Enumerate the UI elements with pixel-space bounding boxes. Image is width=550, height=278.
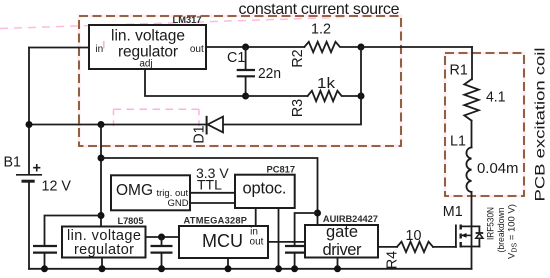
- node: out/C1 junction: [242, 44, 249, 51]
- svg-text:L1: L1: [450, 134, 466, 150]
- wire: LM317 in: [29, 47, 89, 49]
- annotation: magenta dash fragment: [103, 41, 105, 49]
- regulator U2 L7805 box: [62, 216, 146, 258]
- dashed box: constant current source: [79, 16, 401, 146]
- svg-text:optoc.: optoc.: [243, 180, 287, 198]
- svg-text:4.1: 4.1: [486, 90, 506, 106]
- wire: B1 - rail (left vertical, bottom): [28, 182, 30, 269]
- wire: ground bus: [29, 268, 472, 270]
- optocoupler U3 PC817 box: [235, 165, 295, 209]
- wire: L7805 gnd: [101, 258, 103, 269]
- wire: adj line to R3: [246, 95, 308, 97]
- resistor R2: [290, 22, 361, 68]
- OMG signal source box: [111, 175, 190, 210]
- node: driver VCC junction: [314, 210, 321, 217]
- svg-text:IRF530N: IRF530N: [486, 207, 497, 240]
- svg-text:(breakdown: (breakdown: [496, 208, 507, 253]
- svg-text:+: +: [33, 161, 41, 177]
- svg-text:PCB excitation coil: PCB excitation coil: [533, 48, 548, 202]
- svg-text:in: in: [95, 44, 103, 55]
- inductor L1: [450, 134, 519, 193]
- annotation: cropped magenta dashed line (top, tilted): [0, 17, 345, 28]
- svg-text:TTL: TTL: [197, 177, 222, 193]
- svg-text:R1: R1: [450, 63, 468, 79]
- svg-text:R4: R4: [385, 251, 401, 269]
- svg-text:driver: driver: [323, 241, 363, 259]
- wire: B1 + rail (left vertical, top): [28, 48, 30, 175]
- svg-text:0.04m: 0.04m: [477, 161, 519, 177]
- wire: OMG trig to optoc: [190, 192, 235, 194]
- svg-text:M1: M1: [443, 204, 463, 220]
- resistor R4: [385, 228, 434, 269]
- wire: LM317 adj pin: [145, 69, 246, 96]
- svg-text:R2: R2: [290, 49, 306, 67]
- wire: coil branch down to R1: [471, 47, 473, 79]
- capacitor (bypass, 5V): [151, 237, 173, 269]
- svg-text:lin. voltage: lin. voltage: [111, 28, 185, 45]
- svg-text:gate: gate: [326, 223, 358, 241]
- battery B1: [4, 155, 72, 195]
- wire: R4 to gate: [433, 246, 456, 248]
- svg-text:PC817: PC817: [267, 165, 296, 175]
- capacitor (bypass, B1): [33, 246, 57, 269]
- svg-text:adj: adj: [139, 59, 152, 70]
- wire: MCU gnd: [227, 258, 229, 269]
- dashed box: PCB excitation coil: [445, 53, 524, 196]
- wire: 12V rail down (x=101): [100, 125, 102, 227]
- wire: driver gnd: [337, 258, 339, 269]
- svg-text:1.2: 1.2: [311, 22, 331, 38]
- wire: optoc out to MCU in: [255, 208, 257, 226]
- svg-text:R3: R3: [290, 99, 306, 117]
- svg-text:OMG: OMG: [116, 182, 153, 199]
- svg-text:regulator: regulator: [74, 242, 134, 258]
- label: IRF530N rotated: [486, 204, 519, 259]
- svg-text:D1: D1: [192, 125, 208, 143]
- svg-text:C1: C1: [227, 50, 245, 66]
- wire: MCU out to gate driver: [268, 241, 305, 243]
- wire: node to coil branch: [361, 46, 472, 48]
- resistor R1: [450, 63, 506, 121]
- node: adj/C1 junction: [242, 93, 249, 100]
- wire: optoc gnd down: [278, 208, 280, 269]
- node: R3 right junction: [358, 93, 365, 100]
- wire: L7805 out to MCU: [146, 236, 179, 238]
- wire: LM317 out to node: [206, 46, 304, 48]
- svg-text:B1: B1: [4, 155, 22, 171]
- node: B1/D1-line junction: [26, 121, 33, 128]
- node: VCC branch junction: [98, 155, 105, 162]
- node: 12V rail/D1-line junction: [98, 121, 105, 128]
- diode D1: [192, 116, 224, 144]
- svg-text:LM317: LM317: [173, 15, 202, 25]
- wire: OMG gnd to optoc: [190, 202, 235, 204]
- svg-text:GND: GND: [168, 198, 189, 209]
- svg-text:MCU: MCU: [202, 231, 243, 251]
- capacitor (bypass, driver): [285, 246, 304, 269]
- annotation: cropped magenta dashed box around D1: [114, 109, 200, 128]
- svg-text:out: out: [190, 44, 204, 55]
- svg-text:constant current source: constant current source: [239, 1, 400, 18]
- node: R2 right junction: [358, 44, 365, 51]
- node: cap1 branch junction: [98, 212, 105, 219]
- svg-text:L7805: L7805: [118, 216, 144, 226]
- wire: VCC to cap3: [295, 213, 318, 246]
- wire: R1 to L1: [471, 121, 473, 148]
- wire: driver out: [378, 246, 397, 248]
- capacitor C1: [227, 47, 281, 96]
- svg-text:12 V: 12 V: [42, 179, 72, 195]
- svg-text:10: 10: [406, 228, 422, 244]
- wire: cap1 branch: [45, 216, 102, 246]
- transistor M1 (IRF530N MOSFET): [443, 204, 483, 248]
- svg-text:out: out: [250, 237, 264, 248]
- op-amp/regulator U1 LM317 box: [89, 15, 206, 70]
- node: bus junctions: [41, 265, 48, 272]
- svg-text:22n: 22n: [258, 66, 281, 82]
- node: cap2 junction: [158, 234, 165, 241]
- svg-text:1k: 1k: [317, 76, 336, 92]
- wire: junction rail down: [29, 47, 361, 125]
- wire: VCC line to gate driver: [101, 158, 318, 225]
- resistor R3: [290, 76, 361, 117]
- wire: L1 to drain: [471, 192, 473, 269]
- svg-text:ATMEGA328P: ATMEGA328P: [184, 216, 248, 226]
- gate driver U5 AUIRB24427 box: [305, 214, 378, 259]
- MCU U4 ATMEGA328P box: [179, 216, 268, 259]
